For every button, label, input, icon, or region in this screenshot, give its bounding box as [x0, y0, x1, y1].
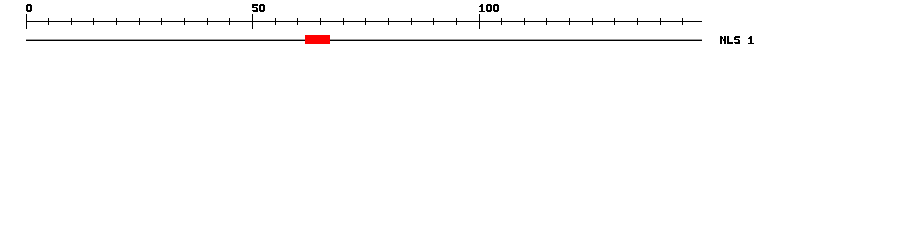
ruler label 0: [26, 4, 32, 12]
sequence line: [26, 40, 702, 41]
sequence line upper half: [26, 39, 702, 40]
NLS motif box: [305, 35, 330, 44]
ruler label 50: [252, 4, 265, 12]
label NLS 1: [720, 36, 754, 44]
ruler major tick 0: [26, 14, 27, 29]
ruler axis line: [26, 21, 702, 22]
ruler major tick 50: [252, 14, 253, 29]
ruler minor ticks: [48, 18, 683, 25]
ruler label 100: [479, 4, 499, 12]
ruler major tick 100: [479, 14, 480, 29]
